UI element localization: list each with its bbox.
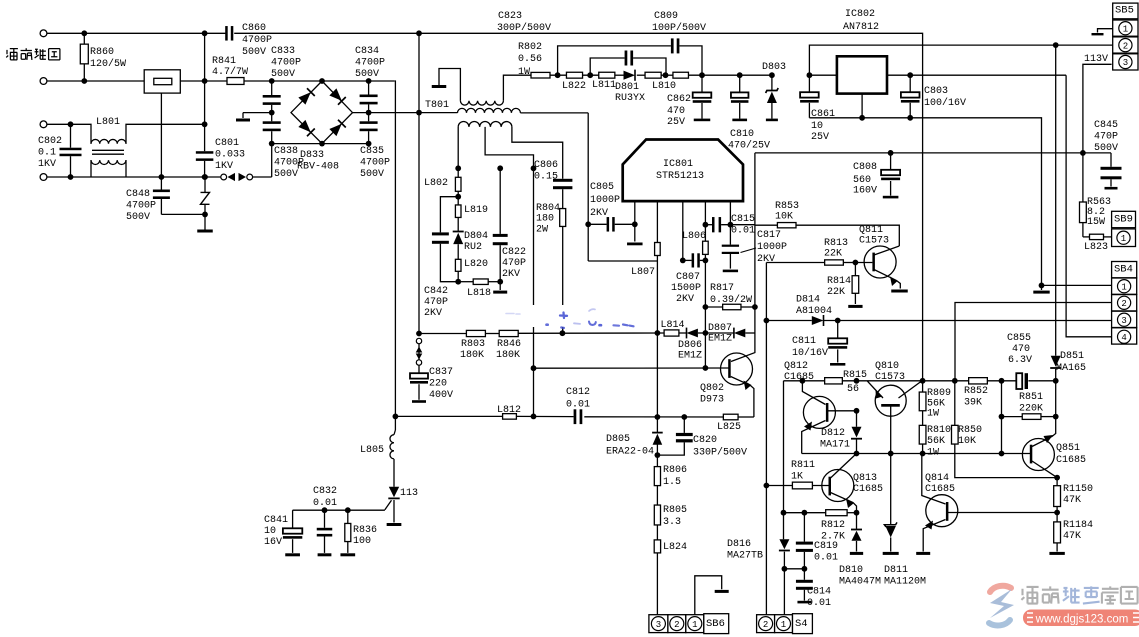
svg-text:113: 113 (400, 488, 418, 499)
svg-text:C835: C835 (360, 146, 384, 157)
transistor Q851 (1022, 439, 1054, 471)
watermark site name (1021, 587, 1038, 604)
svg-text:1500P: 1500P (671, 283, 701, 294)
connector SB6 box (704, 614, 729, 634)
svg-text:0.033: 0.033 (215, 149, 245, 160)
svg-text:L819: L819 (464, 205, 488, 216)
capacitor C833 (271, 81, 273, 95)
svg-text:4700P: 4700P (242, 35, 272, 46)
svg-text:2W: 2W (536, 224, 548, 235)
svg-text:1K: 1K (791, 471, 803, 482)
inductor L814 (664, 330, 679, 336)
svg-text:EM1Z: EM1Z (678, 350, 702, 361)
resistor R812 line (784, 512, 826, 514)
svg-text:R810: R810 (927, 425, 951, 436)
connector S4 box (793, 614, 813, 634)
svg-text:C807: C807 (676, 272, 700, 283)
svg-text:1: 1 (692, 620, 697, 630)
svg-text:R813: R813 (824, 238, 848, 249)
interlock connector X801 (221, 174, 227, 180)
wire R815 rail y380.8 (784, 380, 825, 382)
connector SB5 pin3 (1113, 54, 1138, 70)
inductor L811 (599, 72, 615, 78)
ground below spark gap (197, 230, 213, 233)
capacitor C834 (368, 81, 370, 95)
svg-text:D851: D851 (1060, 351, 1084, 362)
diode D851 (1055, 45, 1057, 356)
connector SB6 pin3 (649, 615, 668, 633)
svg-text:MA171: MA171 (820, 439, 850, 450)
inductor L801 core (92, 149, 124, 151)
svg-text:R846: R846 (497, 339, 521, 350)
svg-text:3: 3 (1121, 316, 1126, 326)
svg-text:47K: 47K (1063, 531, 1081, 542)
capacitor C809 loop (558, 46, 671, 75)
capacitor C860 (225, 26, 228, 41)
wire SB4 pin1 line (1042, 284, 1112, 286)
wire vertical C801 column (204, 33, 206, 151)
svg-text:1: 1 (781, 620, 786, 630)
resistor R852 (969, 378, 988, 384)
svg-text:C812: C812 (566, 387, 590, 398)
svg-text:500V: 500V (271, 69, 295, 80)
inductor L820 (457, 244, 459, 259)
watermark center blue marks (506, 309, 634, 328)
inductor L825 (723, 414, 738, 420)
wire main drive bus y417 (395, 415, 502, 417)
svg-text:4700P: 4700P (271, 57, 301, 68)
wire 12V rail upper (809, 45, 1112, 75)
transistor Q812 (803, 396, 835, 428)
svg-text:R812: R812 (821, 520, 845, 531)
svg-text:39K: 39K (964, 397, 982, 408)
svg-text:6.3V: 6.3V (1008, 355, 1032, 366)
wire Q802 collector link (731, 333, 755, 362)
capacitor C806 (562, 178, 564, 180)
resistor R803 (466, 330, 485, 336)
svg-text:1: 1 (1123, 24, 1128, 34)
wire secondary to C805 (587, 113, 589, 261)
resistor R809 (922, 381, 924, 392)
resistor R836 (347, 510, 349, 523)
svg-text:0.39/2W: 0.39/2W (710, 294, 752, 306)
diode D810 (856, 513, 858, 529)
svg-text:L822: L822 (562, 81, 586, 92)
svg-text:D816: D816 (727, 539, 751, 550)
thyristor Q803 113 (389, 487, 399, 497)
wire top of L801 (47, 124, 91, 144)
svg-text:D804: D804 (464, 231, 488, 242)
resistor R563 (1080, 202, 1087, 223)
svg-text:500V: 500V (360, 169, 384, 180)
ic IC801 pin3 (682, 201, 684, 260)
wire trunk x419 (418, 33, 420, 333)
svg-text:C820: C820 (693, 435, 717, 446)
svg-text:C806: C806 (534, 160, 558, 171)
svg-text:C1685: C1685 (784, 372, 814, 383)
bridge diode a (298, 88, 315, 105)
diode D803 zener (771, 75, 773, 90)
resistor R853 line (755, 224, 778, 226)
svg-text:10: 10 (811, 121, 823, 132)
capacitor C842 (440, 197, 458, 233)
inductor L810 (645, 72, 661, 78)
diode D804 (453, 231, 464, 233)
wire D806 D807 line (419, 333, 466, 335)
diode D812 (856, 411, 858, 427)
inductor L818 (458, 281, 473, 283)
resistor R802 (531, 72, 550, 78)
svg-text:R1150: R1150 (1063, 484, 1093, 495)
svg-text:2KV: 2KV (590, 208, 608, 219)
connector SB6 pin1 (686, 615, 704, 633)
svg-text:MA4047M: MA4047M (839, 576, 881, 587)
resistor R812 (826, 510, 847, 516)
capacitor C835 (360, 121, 378, 124)
connector SB5 pin2 (1113, 37, 1138, 53)
bridge diode b (329, 88, 346, 105)
svg-text:22K: 22K (827, 287, 845, 298)
inductor L801 top winding (91, 139, 126, 143)
svg-text:D806: D806 (678, 340, 702, 351)
wire trunk x766 S4pin2 (765, 321, 767, 615)
capacitor C801 (196, 151, 214, 154)
diode D807 (734, 329, 745, 338)
svg-text:0.1: 0.1 (38, 147, 56, 158)
svg-text:C823: C823 (498, 11, 522, 22)
ic IC801 pin1 (634, 201, 636, 241)
svg-text:L812: L812 (497, 405, 521, 416)
inductor L823 (1082, 223, 1084, 237)
capacitor C802 (70, 124, 72, 147)
inductor L805 (394, 416, 396, 430)
capacitor C848 (160, 177, 162, 190)
inductor L801 bottom winding (91, 160, 126, 164)
connector SB6 pin2 (668, 615, 686, 633)
svg-text:C833: C833 (271, 46, 295, 57)
wire top AC bus with corner down right trunk (47, 32, 226, 34)
svg-text:500V: 500V (355, 69, 379, 80)
svg-text:0.01: 0.01 (313, 498, 337, 509)
connector SB9 pin1 (1112, 229, 1136, 247)
connector SB4 pin3 (1112, 311, 1137, 327)
svg-text:R802: R802 (518, 42, 542, 53)
resistor R846 (499, 330, 518, 336)
svg-text:C808: C808 (853, 162, 877, 173)
wire Q851 base link (1001, 417, 1003, 454)
svg-text:0.15: 0.15 (534, 171, 558, 182)
svg-text:R836: R836 (353, 525, 377, 536)
ic IC801 body (623, 140, 743, 202)
ground at pin1 (627, 243, 643, 246)
capacitor C838 (263, 121, 281, 124)
spark gap Z801 (204, 177, 206, 192)
svg-text:22K: 22K (824, 248, 842, 259)
svg-text:C802: C802 (38, 136, 62, 147)
wire AC line2 (47, 80, 144, 82)
svg-text:Q813: Q813 (853, 473, 877, 484)
svg-text:L807: L807 (631, 267, 655, 278)
svg-text:470: 470 (667, 106, 685, 117)
svg-text:470P: 470P (424, 297, 448, 308)
transformer T801 secondary2 winding (458, 122, 512, 127)
diode D801 (624, 71, 636, 80)
svg-text:R815: R815 (843, 370, 867, 381)
svg-text:R809: R809 (927, 388, 951, 399)
svg-text:Q810: Q810 (875, 361, 899, 372)
capacitor C855 (1016, 373, 1022, 389)
capacitor C817 (729, 225, 731, 245)
diode D816 (779, 539, 789, 549)
svg-text:MA27TB: MA27TB (727, 550, 763, 561)
svg-text:100: 100 (353, 536, 371, 547)
svg-text:500V: 500V (274, 169, 298, 180)
svg-text:C848: C848 (126, 189, 150, 200)
svg-text:ERA22-04: ERA22-04 (606, 446, 654, 457)
svg-text:R851: R851 (1019, 392, 1043, 403)
svg-text:L814: L814 (661, 320, 685, 331)
wire x658 column down (656, 261, 658, 417)
svg-text:0.01: 0.01 (807, 598, 831, 609)
label 消磁线圈 degaussing coil (6, 49, 18, 60)
svg-text:C822: C822 (502, 247, 526, 258)
capacitor C805 (588, 223, 606, 225)
svg-text:L820: L820 (464, 259, 488, 270)
capacitor C808 (890, 153, 892, 170)
svg-text:4700P: 4700P (360, 157, 390, 168)
svg-text:C845: C845 (1094, 120, 1118, 131)
svg-text:SB4: SB4 (1114, 264, 1133, 276)
terminal input 3 (40, 121, 47, 128)
svg-text:10/16V: 10/16V (792, 347, 828, 359)
svg-text:470: 470 (1012, 344, 1030, 355)
svg-text:2: 2 (674, 620, 679, 630)
ground at Q811 emitter (891, 290, 908, 293)
transformer T801 primary ground (432, 85, 447, 88)
svg-text:D803: D803 (762, 62, 786, 73)
connector SB4 pin4 (1112, 328, 1137, 344)
svg-text:S4: S4 (795, 618, 808, 630)
ground stub SB5 pin1 (1098, 29, 1113, 33)
svg-text:D807: D807 (708, 323, 732, 334)
capacitor C820 (683, 417, 685, 433)
svg-text:D814: D814 (796, 294, 820, 305)
svg-text:0.01: 0.01 (731, 225, 755, 236)
connector SB4 box (1112, 262, 1137, 278)
svg-text:RU3YX: RU3YX (615, 93, 645, 104)
svg-text:1: 1 (1121, 234, 1126, 244)
svg-text:C801: C801 (215, 138, 239, 149)
svg-text:IC801: IC801 (663, 159, 693, 170)
resistor R814 (854, 263, 856, 276)
svg-text:R853: R853 (775, 201, 799, 212)
capacitor C845 (1110, 153, 1112, 167)
resistor R813 (766, 262, 824, 264)
svg-text:R805: R805 (663, 505, 687, 516)
wire 12V bottom rail (809, 118, 1041, 286)
svg-text:1W: 1W (927, 447, 939, 458)
wire trunk x1066 to SB4 pin4 (1066, 75, 1112, 337)
watermark url pill (1023, 610, 1139, 627)
capacitor C819 (803, 513, 805, 542)
svg-text:L810: L810 (652, 81, 676, 92)
transistor Q811 (864, 246, 896, 278)
resistor R841 (227, 78, 244, 85)
svg-text:113V: 113V (1084, 54, 1108, 65)
svg-text:4700P: 4700P (126, 200, 156, 211)
resistor R1150 (1056, 478, 1058, 486)
terminal input 4 (40, 174, 47, 181)
connector S4 pin2 (757, 615, 775, 633)
bridge diode d (329, 120, 346, 137)
ground at bridge left (236, 119, 250, 122)
svg-text:47K: 47K (1063, 495, 1081, 506)
svg-text:R811: R811 (791, 460, 815, 471)
svg-text:2KV: 2KV (502, 269, 520, 280)
wire AC bottom line (47, 176, 224, 178)
inductor L810b (673, 72, 689, 78)
svg-text:470P: 470P (1094, 131, 1118, 142)
resistor R850 (954, 381, 956, 426)
wire bridge left node to ground (243, 112, 272, 114)
svg-text:D805: D805 (606, 434, 630, 445)
terminal input 1 (40, 30, 47, 37)
svg-text:10K: 10K (958, 436, 976, 447)
svg-text:EM1Z: EM1Z (708, 333, 732, 344)
svg-text:R804: R804 (536, 203, 560, 214)
svg-text:www.dgjs123.com: www.dgjs123.com (1035, 614, 1129, 626)
wire R804 down (562, 227, 564, 306)
svg-text:SB9: SB9 (1114, 214, 1133, 226)
svg-text:4700P: 4700P (274, 157, 304, 168)
inductor L824 (654, 540, 660, 553)
svg-text:470/25V: 470/25V (728, 139, 770, 151)
svg-text:500V: 500V (1094, 143, 1118, 154)
resistor R1184 (1054, 522, 1061, 543)
svg-text:R806: R806 (663, 465, 687, 476)
inductor L812 (503, 414, 517, 420)
svg-text:Q814: Q814 (925, 473, 949, 484)
watermark logo (989, 586, 1014, 626)
svg-text:IC802: IC802 (845, 9, 875, 20)
svg-text:3: 3 (1123, 58, 1128, 68)
svg-text:L818: L818 (467, 288, 491, 299)
svg-text:C814: C814 (807, 586, 831, 597)
svg-text:220: 220 (429, 378, 447, 389)
wire bus y453.5 (802, 453, 1031, 455)
transformer T801 secondary1 winding (458, 108, 521, 112)
transistor Q813 (822, 470, 854, 502)
diode D806 (687, 329, 698, 338)
svg-text:120/5W: 120/5W (90, 58, 126, 70)
svg-text:56: 56 (847, 384, 859, 395)
svg-text:D973: D973 (700, 394, 724, 405)
capacitor C832 (324, 510, 326, 528)
svg-text:MA1120M: MA1120M (884, 576, 926, 587)
svg-text:2: 2 (1123, 41, 1128, 51)
svg-text:10K: 10K (775, 211, 793, 222)
bridge diode c (298, 120, 315, 137)
svg-text:C834: C834 (355, 46, 379, 57)
wire S4 pin1 link (784, 568, 804, 570)
svg-text:2: 2 (763, 620, 768, 630)
svg-text:R841: R841 (212, 56, 236, 67)
svg-text:RU2: RU2 (464, 242, 482, 253)
svg-text:R803: R803 (461, 339, 485, 350)
svg-text:10: 10 (264, 526, 276, 537)
transistor Q810 (875, 385, 906, 416)
svg-text:SB5: SB5 (1115, 5, 1134, 17)
svg-text:180: 180 (536, 213, 554, 224)
wire bridge right rail (353, 112, 458, 114)
svg-text:4: 4 (1121, 333, 1126, 343)
diode D814 line (766, 320, 811, 322)
svg-text:L801: L801 (96, 117, 120, 128)
svg-text:C1573: C1573 (859, 235, 889, 246)
resistor R804 (560, 209, 566, 227)
ground at R814 (848, 305, 862, 308)
svg-text:2: 2 (1121, 299, 1126, 309)
svg-text:D810: D810 (839, 565, 863, 576)
svg-text:T801: T801 (425, 100, 449, 111)
capacitor C822 (499, 168, 501, 234)
svg-text:C805: C805 (590, 182, 614, 193)
wire SB6 pin1 ground (695, 576, 722, 615)
terminal input 2 (40, 78, 47, 85)
connector SB5 box (1113, 3, 1138, 19)
svg-text:4.7/7W: 4.7/7W (212, 66, 248, 78)
resistor R817 (705, 306, 722, 308)
svg-text:2KV: 2KV (424, 308, 442, 319)
wire bridge bottom (272, 143, 369, 145)
resistor R851 (1001, 381, 1003, 417)
capacitor C811 (837, 321, 839, 339)
connector S4 pin1 (775, 615, 793, 633)
connector SB5 pin1 (1113, 20, 1138, 36)
ic IC801 pin2 and L807 (656, 201, 658, 243)
svg-text:A81004: A81004 (796, 306, 832, 317)
inductor L819 (457, 197, 459, 205)
capacitor C861 (808, 75, 810, 92)
inductor L802 (457, 168, 459, 177)
svg-text:400V: 400V (429, 390, 453, 401)
svg-text:Q811: Q811 (859, 225, 883, 236)
diode D805 (656, 417, 658, 432)
svg-text:330P/500V: 330P/500V (693, 446, 747, 458)
svg-text:AN7812: AN7812 (843, 22, 879, 33)
capacitor C823 loop (590, 58, 624, 75)
svg-text:L811: L811 (592, 80, 616, 91)
svg-text:L805: L805 (360, 445, 384, 456)
svg-text:C817: C817 (757, 230, 781, 241)
svg-text:1W: 1W (927, 408, 939, 419)
svg-text:220K: 220K (1019, 403, 1043, 414)
capacitor C841 (292, 510, 294, 528)
svg-text:Q802: Q802 (700, 383, 724, 394)
fuse F801 box (144, 70, 180, 93)
svg-text:C841: C841 (264, 515, 288, 526)
svg-text:1KV: 1KV (215, 161, 233, 172)
svg-text:L802: L802 (424, 178, 448, 189)
svg-text:R817: R817 (710, 283, 734, 294)
connector SB9 box (1112, 211, 1136, 227)
svg-text:56K: 56K (927, 436, 945, 447)
ground at SB4 pin1 trunk (1033, 291, 1049, 294)
svg-text:1000P: 1000P (590, 195, 620, 206)
svg-text:C860: C860 (242, 23, 266, 34)
svg-text:C1573: C1573 (875, 372, 905, 383)
wire L807 link (588, 260, 657, 262)
